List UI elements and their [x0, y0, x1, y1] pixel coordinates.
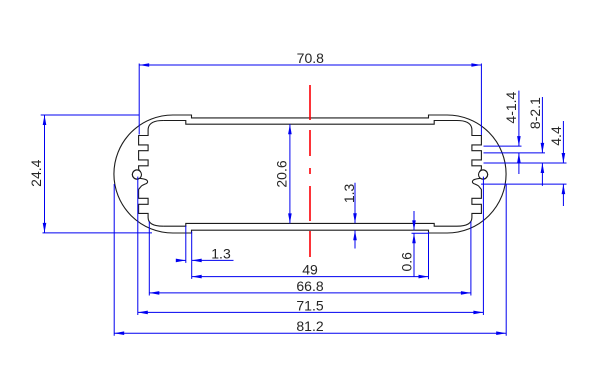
left screw boss circle — [132, 170, 141, 179]
dimension 24.4 left overall height — [41, 114, 140, 116]
dimension 4.4 boss offset — [562, 121, 564, 163]
svg-text:1.3: 1.3 — [341, 183, 357, 203]
svg-text:20.6: 20.6 — [274, 160, 290, 187]
svg-text:71.5: 71.5 — [296, 297, 323, 313]
dimension 20.6 inner cavity height — [289, 124, 291, 223]
dimension 8-2.1 tooth pitch — [541, 97, 543, 153]
dimension 81.2 overall width — [113, 184, 115, 336]
svg-text:70.8: 70.8 — [297, 50, 324, 66]
svg-text:49: 49 — [302, 262, 318, 278]
right screw boss circle — [479, 170, 488, 179]
dimension 71.5 — [137, 177, 139, 315]
outer profile outline — [114, 115, 506, 233]
dimension 1.3 bottom step offset horizontal — [185, 226, 187, 263]
svg-text:1.3: 1.3 — [211, 245, 231, 261]
svg-text:66.8: 66.8 — [296, 278, 323, 294]
left serrated wall — [132, 121, 163, 227]
dimension 1.3 bottom wall thickness vertical — [354, 183, 356, 224]
red vertical centerline — [309, 85, 311, 257]
svg-text:24.4: 24.4 — [28, 159, 44, 186]
inner cavity outline with right serrated wall — [163, 121, 488, 227]
dimension 4-1.4 tooth slot — [518, 91, 520, 147]
svg-text:4-1.4: 4-1.4 — [503, 91, 519, 123]
dimension 49 — [428, 232, 430, 279]
dimension 66.8 — [148, 222, 150, 296]
svg-text:0.6: 0.6 — [399, 252, 415, 272]
svg-text:4.4: 4.4 — [548, 126, 564, 146]
svg-text:8-2.1: 8-2.1 — [527, 97, 543, 129]
right extension lines for tooth dims — [484, 145, 522, 147]
dimension 0.6 bottom step vertical — [413, 211, 415, 230]
dimension 70.8 top: extension lines, dim line, arrows, label — [138, 64, 140, 135]
svg-text:81.2: 81.2 — [296, 318, 323, 334]
